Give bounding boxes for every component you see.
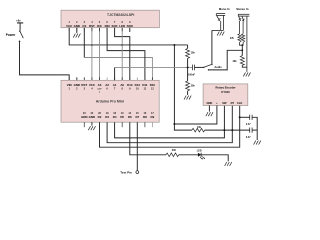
pin tick D5 <box>121 122 123 127</box>
svg-text:A0: A0 <box>120 83 124 87</box>
svg-text:VIN: VIN <box>67 83 72 87</box>
svg-text:DIN: DIN <box>105 24 110 28</box>
wire D3 to encoder DT <box>107 106 232 143</box>
resistor R7 47k right <box>242 34 245 43</box>
resistor R2 20k bias lower <box>186 67 196 95</box>
pin tick GRN <box>83 122 85 127</box>
svg-text:A1: A1 <box>113 83 117 87</box>
jack J2 Stereo In <box>236 7 249 72</box>
IC U1 TJCTM24024-SPI display module <box>61 10 159 28</box>
svg-text:GRN: GRN <box>81 115 87 119</box>
svg-text:+9v: +9v <box>16 18 21 22</box>
ground bias divider <box>184 96 191 100</box>
capacitor C1 100nF <box>192 65 194 71</box>
pin tick D9 <box>151 122 153 127</box>
svg-text:SW: SW <box>222 101 227 105</box>
switch SW2 Audio <box>203 64 222 71</box>
wire resistor to LED <box>179 154 198 156</box>
power supply +9v symbol <box>16 18 23 30</box>
capacitor C2 0.47 <box>250 115 252 120</box>
node junction stereo mix <box>241 44 243 46</box>
node junction rail/RST <box>91 44 93 46</box>
svg-text:Audio: Audio <box>214 65 222 69</box>
wire Arduino GND bottom stub <box>91 122 93 125</box>
node junction CLK cap <box>239 116 241 118</box>
svg-text:10k: 10k <box>191 51 196 54</box>
svg-text:D9: D9 <box>151 115 155 119</box>
svg-text:47k: 47k <box>230 37 235 40</box>
svg-text:TJCTM24024-SPI: TJCTM24024-SPI <box>107 13 134 17</box>
svg-text:GND: GND <box>74 83 80 87</box>
wire encoder plus <box>174 106 217 125</box>
wire D6 to LED resistor <box>130 122 166 155</box>
svg-text:GND: GND <box>89 115 95 119</box>
node junction rail/encoder supply <box>173 44 175 46</box>
resistor R6 47k left <box>238 34 241 43</box>
wire A1 riser <box>114 67 116 80</box>
wire D4 to encoder SW <box>115 106 225 138</box>
wire encoder GND stub <box>208 106 210 112</box>
resistor R4 330 <box>166 153 179 157</box>
svg-text:D3: D3 <box>105 115 109 119</box>
svg-text:D7: D7 <box>135 115 139 119</box>
pin tick GND top <box>76 77 78 80</box>
ground caps <box>254 141 261 145</box>
ground stereo sleeve <box>243 72 250 76</box>
IC U3 Rotary Encoder KY040 <box>203 84 248 106</box>
svg-text:D11: D11 <box>142 83 148 87</box>
wire caps to ground <box>252 117 257 140</box>
resistor R1 10k bias upper <box>186 45 196 67</box>
wire CLK to cap1 <box>240 116 250 118</box>
svg-text:RST: RST <box>81 83 87 87</box>
wire pullup line to cap2 <box>205 129 250 131</box>
pin tick D12 <box>136 77 138 80</box>
wire display DIN to D11 <box>107 28 145 81</box>
wire CS horizontal to D10 <box>84 58 152 81</box>
svg-text:Test Pin: Test Pin <box>120 171 132 175</box>
wire power to VIN <box>20 42 70 81</box>
resistor R5 10k pullup <box>192 128 205 132</box>
resistor R3 20k <box>240 56 244 66</box>
svg-text:Arduino Pro Mini: Arduino Pro Mini <box>96 100 124 104</box>
wire LED to ground <box>201 155 228 162</box>
svg-text:Stereo In: Stereo In <box>236 7 249 11</box>
svg-text:VCC: VCC <box>66 24 73 28</box>
svg-text:Rotary Encoder: Rotary Encoder <box>215 86 235 90</box>
node junction bias <box>187 66 189 68</box>
svg-text:GND: GND <box>74 24 80 28</box>
IC U2 Arduino Pro Mini <box>61 80 159 122</box>
wire display CS vertical <box>83 28 85 58</box>
ground LED <box>225 162 232 166</box>
switch SW1 Power <box>19 30 24 42</box>
LED D1 <box>197 150 205 160</box>
wire display VCC to +V rail <box>69 28 187 45</box>
svg-text:CLK: CLK <box>237 101 242 105</box>
node junction SW pullup <box>223 129 225 131</box>
node junction plus branch <box>173 123 175 125</box>
wire 20k to ground <box>242 65 247 67</box>
wire display RST to VCC net and Arduino VCC <box>91 28 93 81</box>
svg-text:0.47: 0.47 <box>246 123 251 126</box>
wire stereo tip down <box>239 21 241 34</box>
capacitor C3 0.47 <box>250 128 252 133</box>
svg-text:20k: 20k <box>191 84 196 87</box>
svg-text:D12: D12 <box>135 83 141 87</box>
pin tick A2 <box>106 77 108 80</box>
wire cap2 right <box>252 129 257 131</box>
svg-text:VCC: VCC <box>89 83 96 87</box>
svg-text:D5: D5 <box>120 115 124 119</box>
ground display GND <box>73 34 80 38</box>
wire stereo ring down <box>242 22 244 34</box>
svg-text:KY040: KY040 <box>221 90 230 94</box>
svg-text:D8: D8 <box>143 115 147 119</box>
svg-text:330: 330 <box>172 149 177 152</box>
jack J1 Mono In <box>212 7 230 30</box>
svg-text:A3: A3 <box>98 83 102 87</box>
svg-text:100nF: 100nF <box>188 73 195 76</box>
svg-text:DT: DT <box>231 101 235 105</box>
wire audio line to coupling cap <box>115 66 193 68</box>
wire display SDO stub <box>129 28 131 32</box>
pin stubs arduino top <box>69 77 152 80</box>
svg-text:D10: D10 <box>150 83 156 87</box>
node junction mix to switch <box>241 49 243 51</box>
svg-text:Mono In: Mono In <box>219 7 230 11</box>
svg-text:D4: D4 <box>113 115 117 119</box>
node junction rail/LED <box>121 44 123 46</box>
ground mono sleeve <box>217 32 224 36</box>
test pin TP1 <box>136 171 139 174</box>
svg-text:SDO: SDO <box>127 24 134 28</box>
wire D7 to test pin <box>136 122 138 171</box>
svg-text:RST: RST <box>89 24 95 28</box>
wire mix node <box>240 42 244 45</box>
svg-text:LED: LED <box>119 24 125 28</box>
svg-text:D6: D6 <box>128 115 132 119</box>
wire display D/C to A3 <box>99 28 101 81</box>
svg-text:D13: D13 <box>127 83 133 87</box>
wire display SCK to D13 <box>115 28 130 81</box>
node junction DT pullup <box>231 129 233 131</box>
pin tick D8 <box>144 122 146 127</box>
wire VCC rail down to encoder plus <box>174 45 192 130</box>
svg-text:20k: 20k <box>233 60 238 63</box>
pin stubs display module <box>69 28 122 32</box>
wire cap to switch pole <box>195 66 204 68</box>
ground encoder <box>206 112 213 116</box>
svg-text:CS: CS <box>82 24 86 28</box>
wire switch lower throw to stereo node <box>209 50 243 70</box>
svg-text:LED: LED <box>197 150 202 153</box>
svg-text:GND: GND <box>207 101 213 105</box>
wire D2 to encoder CLK <box>100 106 240 148</box>
ground Arduino GND <box>88 126 95 130</box>
svg-text:SCK: SCK <box>112 24 119 28</box>
svg-text:A2: A2 <box>105 83 109 87</box>
svg-text:Power: Power <box>6 33 16 37</box>
svg-text:10k: 10k <box>197 126 202 129</box>
svg-text:0.47: 0.47 <box>246 136 251 139</box>
wire display GND stub <box>76 28 78 33</box>
wire mono to switch upper throw <box>211 30 213 64</box>
svg-text:D2: D2 <box>98 115 102 119</box>
wire display LED to A0 <box>121 28 123 81</box>
